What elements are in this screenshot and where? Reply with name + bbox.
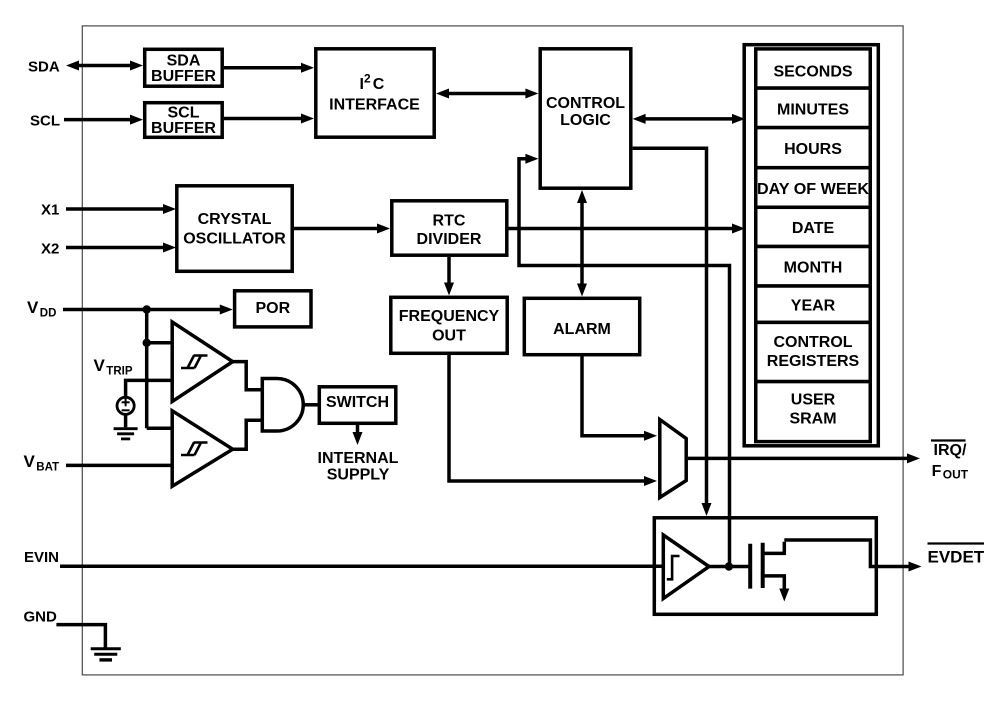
wire mux to IRQ/FOUT pin: [688, 453, 920, 463]
wire alarm to mux: [582, 355, 657, 441]
register file outer box: [744, 45, 878, 446]
svg-text:X1: X1: [41, 202, 59, 219]
svg-text:SECONDS: SECONDS: [773, 64, 852, 81]
voltage source VTRIP: [117, 397, 134, 414]
svg-text:IRQ/: IRQ/: [934, 442, 967, 459]
register SECONDS: [756, 49, 871, 88]
wire X2 pin to crystal oscillator: [66, 243, 176, 253]
svg-text:TRIP: TRIP: [106, 366, 133, 378]
svg-text:DD: DD: [40, 308, 57, 320]
wire RTC divider to DATE register: [509, 224, 746, 234]
svg-text:V: V: [27, 298, 39, 317]
mux U3: [660, 420, 686, 498]
wire I2C interface to control logic (bidirectional): [436, 89, 538, 99]
block event detector: [654, 518, 876, 615]
register DATE: [756, 207, 871, 246]
pin label GND: [24, 609, 58, 626]
ground symbol: [91, 649, 121, 660]
register MINUTES: [756, 88, 871, 128]
register HOURS: [756, 128, 871, 168]
wire MOSFET drain to EVDET pin: [784, 540, 921, 572]
register YEAR: [756, 286, 871, 322]
svg-text:SRAM: SRAM: [789, 411, 836, 428]
svg-text:INTERFACE: INTERFACE: [329, 96, 420, 113]
pin label X1: [41, 202, 59, 219]
wire X1 pin to crystal oscillator: [66, 204, 176, 214]
pin label X2: [41, 241, 59, 258]
svg-text:EVIN: EVIN: [24, 549, 59, 566]
svg-text:GND: GND: [24, 609, 58, 626]
svg-text:V: V: [94, 356, 106, 375]
AND gate U2: [262, 379, 303, 432]
register CONTROL REGISTERS: [756, 322, 871, 381]
register DAY OF WEEK: [756, 168, 871, 208]
block ALARM: [524, 298, 639, 354]
block I2C INTERFACE U1: [316, 49, 434, 137]
svg-text:MINUTES: MINUTES: [777, 101, 849, 118]
svg-text:SUPPLY: SUPPLY: [327, 467, 390, 484]
pin label VTRIP: [94, 356, 133, 378]
wire frequency out to mux: [449, 353, 657, 486]
svg-text:USER: USER: [791, 392, 836, 409]
svg-text:EVDET: EVDET: [928, 548, 985, 567]
schmitt buffer U4: [663, 535, 709, 599]
wire crystal oscillator to RTC divider: [294, 224, 390, 234]
block RTC DIVIDER: [392, 201, 507, 255]
ground below VTRIP source: [114, 414, 138, 439]
svg-text:DIVIDER: DIVIDER: [417, 231, 482, 248]
block FREQUENCY OUT: [391, 297, 507, 353]
svg-text:HOURS: HOURS: [784, 141, 842, 158]
wire switch to internal supply: [353, 425, 363, 445]
svg-text:DATE: DATE: [792, 220, 835, 237]
wire event detect junction to control logic: [519, 154, 730, 567]
pin label SDA: [28, 59, 60, 76]
wire SDA pin to SDA buffer: [66, 61, 143, 71]
wire lower comparator to AND gate: [231, 420, 262, 449]
wire VTRIP to upper comparator: [126, 380, 173, 396]
label INTERNAL SUPPLY: [318, 450, 399, 484]
wire SCL pin to SCL buffer: [64, 115, 143, 125]
block CRYSTAL OSCILLATOR: [177, 186, 292, 271]
svg-text:C: C: [373, 76, 385, 93]
wire SCL buffer to I2C interface: [224, 114, 314, 124]
svg-text:OSCILLATOR: OSCILLATOR: [183, 231, 286, 248]
svg-text:CRYSTAL: CRYSTAL: [198, 211, 272, 228]
wire VDD to comparators: [147, 310, 173, 429]
wire upper comparator to AND gate: [231, 362, 262, 390]
svg-text:SCL: SCL: [30, 113, 60, 130]
svg-text:SDA: SDA: [28, 59, 60, 76]
svg-text:DAY OF WEEK: DAY OF WEEK: [757, 181, 869, 198]
comparator upper (VDD/VTRIP): [172, 322, 233, 402]
svg-text:RTC: RTC: [433, 212, 466, 229]
register MONTH: [756, 247, 871, 287]
block CONTROL LOGIC: [540, 49, 631, 188]
transistor Q1 (MOSFET): [750, 542, 789, 602]
chip boundary: [82, 26, 903, 675]
svg-text:POR: POR: [255, 300, 290, 317]
svg-text:OUT: OUT: [432, 328, 466, 345]
block SCL BUFFER: [145, 103, 223, 138]
wire AND gate to switch: [303, 403, 318, 407]
svg-text:CONTROL: CONTROL: [773, 334, 852, 351]
pin label VBAT: [24, 452, 60, 474]
wire VBAT pin to lower comparator: [66, 464, 173, 468]
svg-text:INTERNAL: INTERNAL: [318, 450, 399, 467]
block SWITCH: [319, 387, 396, 424]
node VDD junction: [143, 305, 151, 313]
svg-text:OUT: OUT: [943, 468, 969, 482]
pin label EVIN: [24, 549, 59, 566]
wire control logic to alarm (bidirectional): [577, 190, 587, 297]
svg-text:CONTROL: CONTROL: [546, 95, 625, 112]
svg-text:F: F: [932, 463, 942, 480]
comparator lower (VDD/VBAT): [172, 411, 233, 486]
node EVIN junction: [725, 562, 733, 570]
svg-text:MONTH: MONTH: [784, 260, 843, 277]
pin label VDD: [27, 298, 56, 320]
svg-text:BAT: BAT: [36, 462, 59, 474]
svg-text:REGISTERS: REGISTERS: [767, 353, 860, 370]
svg-text:LOGIC: LOGIC: [560, 112, 611, 129]
pin label EVDET: [928, 544, 985, 567]
wire control logic to register file (bidirectional): [633, 114, 745, 124]
svg-text:FREQUENCY: FREQUENCY: [399, 308, 500, 325]
block SDA BUFFER: [145, 49, 223, 86]
wire GND pin to ground: [56, 625, 105, 648]
svg-text:BUFFER: BUFFER: [151, 68, 216, 85]
svg-text:ALARM: ALARM: [553, 321, 611, 338]
node VDD comparator junction: [143, 339, 151, 347]
svg-text:V: V: [24, 452, 36, 471]
svg-text:SCL: SCL: [168, 105, 200, 122]
wire RTC divider to frequency out: [444, 257, 454, 296]
wire control logic to event detect block: [633, 148, 712, 516]
svg-text:YEAR: YEAR: [791, 298, 836, 315]
wire SDA buffer to I2C interface: [224, 63, 314, 73]
svg-text:X2: X2: [41, 241, 59, 258]
pin label SCL: [30, 113, 60, 130]
register USER SRAM: [756, 382, 871, 442]
svg-text:SDA: SDA: [167, 52, 201, 69]
svg-text:BUFFER: BUFFER: [151, 120, 216, 137]
svg-text:SWITCH: SWITCH: [326, 394, 389, 411]
wire EVIN pin to schmitt buffer: [60, 565, 665, 569]
wire schmitt buffer to MOSFET gate: [709, 565, 749, 569]
svg-text:2: 2: [364, 72, 371, 86]
pin label IRQ/FOUT: [931, 441, 969, 482]
block POR: [235, 291, 311, 327]
wire VDD pin to POR: [63, 305, 233, 315]
